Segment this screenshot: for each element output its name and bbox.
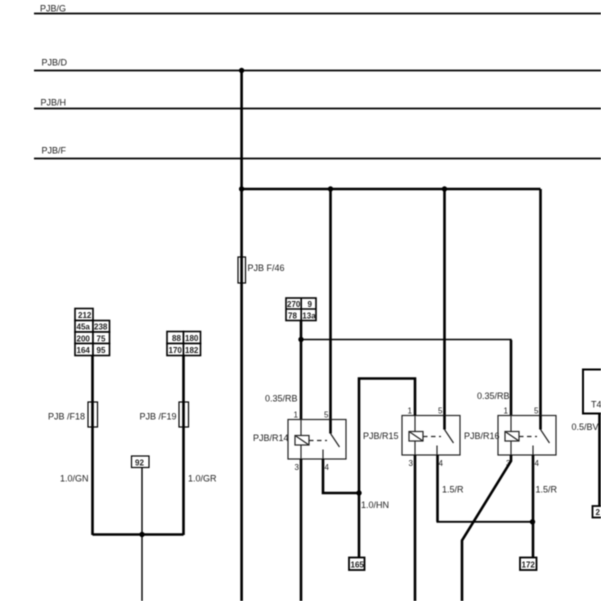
fuse PJB /F18: [48, 402, 98, 427]
svg-text:0.35/RB: 0.35/RB: [477, 391, 510, 401]
svg-text:5: 5: [438, 407, 443, 416]
terminal 2: [593, 506, 601, 518]
svg-text:4: 4: [439, 459, 444, 468]
wire R15 pin3 to bottom: [414, 455, 417, 601]
svg-text:1: 1: [294, 411, 299, 420]
wire F19 drop: [182, 356, 185, 536]
wire R14 pin1 drop from connector: [300, 321, 303, 421]
wire thin branch to R16 pin1: [301, 340, 511, 417]
bus PJB/D: [34, 58, 601, 71]
wire R14 pin4 elbow: [323, 459, 359, 493]
svg-text:PJB F/46: PJB F/46: [248, 263, 285, 273]
svg-text:212: 212: [78, 311, 92, 320]
wire R14 pin5 drop: [329, 189, 332, 420]
svg-text:200: 200: [77, 334, 91, 343]
svg-text:92: 92: [135, 458, 144, 467]
svg-text:4: 4: [535, 459, 540, 468]
svg-text:180: 180: [185, 334, 199, 343]
relay PJB/R15: [363, 407, 460, 469]
wire R14 pin3 to bottom: [300, 459, 303, 601]
svg-text:78: 78: [288, 311, 297, 320]
wire main vertical from PJB/D to bottom: [240, 71, 243, 601]
svg-text:3: 3: [295, 463, 300, 472]
junction dot at node 92: [139, 532, 144, 537]
junction dot at R16 pin4: [530, 519, 535, 524]
svg-text:75: 75: [97, 334, 106, 343]
component T4 box: [583, 370, 601, 414]
wire join F18-F19 horizontal: [93, 533, 184, 536]
fuse PJB /F19: [140, 402, 189, 427]
wire R16 pin4 to terminal 172: [532, 455, 535, 558]
svg-text:PJB/D: PJB/D: [42, 58, 68, 68]
wire T4 drop: [598, 414, 601, 507]
svg-text:1: 1: [504, 407, 509, 416]
svg-text:3: 3: [409, 459, 414, 468]
junction dot at PJB/D tap: [239, 68, 244, 73]
svg-text:1.0/GN: 1.0/GN: [60, 474, 89, 484]
svg-text:PJB/R16: PJB/R16: [464, 431, 500, 441]
wire R15 pin5 drop: [443, 189, 446, 416]
svg-text:0.35/RB: 0.35/RB: [265, 394, 298, 404]
svg-text:45a: 45a: [77, 323, 91, 332]
junction dot R14 pin5 tap: [328, 186, 333, 191]
fuse PJB F/46: [238, 257, 285, 283]
svg-text:88: 88: [172, 334, 181, 343]
wire R16 pin1 drop thick: [510, 340, 513, 416]
svg-text:T4: T4: [591, 400, 601, 410]
svg-text:1: 1: [408, 407, 413, 416]
svg-text:165: 165: [351, 561, 365, 570]
svg-text:PJB /F19: PJB /F19: [140, 412, 177, 422]
svg-text:0.5/BV: 0.5/BV: [572, 422, 599, 432]
svg-text:4: 4: [325, 463, 330, 472]
wire R15 pin1 U-link to terminal 165: [359, 379, 415, 558]
svg-text:PJB/H: PJB/H: [41, 98, 67, 108]
svg-text:9: 9: [308, 300, 313, 309]
svg-text:182: 182: [185, 346, 199, 355]
svg-text:5: 5: [324, 411, 329, 420]
svg-text:PJB/F: PJB/F: [42, 146, 67, 156]
svg-text:170: 170: [169, 346, 183, 355]
wire R16 pin3 diagonal to bottom: [462, 455, 511, 601]
svg-text:1.0/HN: 1.0/HN: [361, 500, 389, 510]
bus PJB/G: [34, 4, 601, 14]
relay PJB/R14: [253, 411, 346, 473]
svg-text:238: 238: [94, 323, 108, 332]
svg-text:PJB/R15: PJB/R15: [363, 431, 399, 441]
svg-text:95: 95: [97, 346, 106, 355]
wire node92 vertical thin: [141, 468, 143, 601]
svg-text:5: 5: [534, 407, 539, 416]
svg-text:164: 164: [77, 346, 91, 355]
connector C1 pins 270/9/78/13a: [286, 298, 316, 321]
svg-text:2: 2: [596, 508, 601, 517]
svg-text:172: 172: [522, 561, 536, 570]
wire F18 drop: [91, 356, 94, 536]
svg-text:1.5/R: 1.5/R: [536, 485, 558, 495]
svg-text:PJB /F18: PJB /F18: [48, 412, 85, 422]
wire R16 pin5 drop: [539, 189, 542, 416]
svg-text:13a: 13a: [302, 311, 316, 320]
svg-text:PJB/R14: PJB/R14: [253, 433, 289, 443]
svg-text:1.0/GR: 1.0/GR: [188, 474, 217, 484]
svg-text:1.5/R: 1.5/R: [442, 485, 464, 495]
junction dot R15 pin5 tap: [442, 186, 447, 191]
relay PJB/R16: [464, 407, 556, 469]
connector C3 stack 88/180/170/182: [167, 332, 201, 356]
wire relay feed branch horizontal: [242, 188, 541, 191]
svg-text:270: 270: [287, 300, 301, 309]
svg-text:PJB/G: PJB/G: [40, 4, 66, 14]
wire R15 pin4 elbow to R16 pin4: [436, 455, 439, 522]
terminal 165: [349, 558, 365, 571]
bus PJB/F: [34, 146, 601, 159]
junction dot branch at main: [239, 186, 244, 191]
bus PJB/H: [34, 98, 601, 109]
junction dot pin4/165: [356, 490, 361, 495]
terminal 92: [132, 456, 150, 468]
terminal 172: [520, 558, 537, 571]
node R14 pin1 / R16 pin1 branch: [298, 337, 303, 342]
connector C2 stack 212/45a/238/200/75/164/95: [75, 309, 110, 356]
